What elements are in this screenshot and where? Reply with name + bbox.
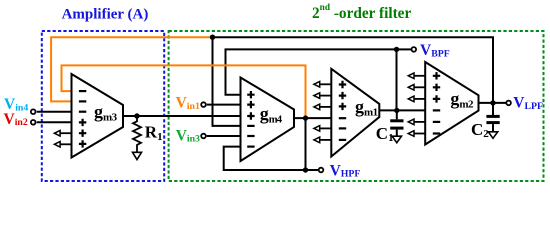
op-amp gm1 row6 arrow stub	[314, 137, 332, 143]
op-amp gm3 row6 arrow stub	[54, 142, 72, 148]
wire: Vin3 input to gm4 row5	[207, 135, 242, 137]
box: 2nd-order filter block (green dashed)	[169, 31, 544, 181]
op-amp gm3 row5 arrow stub	[54, 130, 72, 136]
wire: orange feedback from HPF node to gm3 input row1	[62, 65, 306, 117]
terminal VHPF	[319, 168, 324, 173]
svg-text:VHPF: VHPF	[330, 162, 361, 179]
op-amp gm3 body	[72, 74, 124, 158]
svg-text:Vin3: Vin3	[176, 127, 200, 144]
ground for R1	[133, 152, 142, 159]
op-amp gm3 input polarity marks	[79, 91, 86, 148]
op-amp gm1 row5 arrow stub	[314, 126, 332, 132]
wire: gm4 output to gm1 row4	[293, 117, 332, 119]
wire: BPF vertical from top line down to gm1 output	[396, 49, 398, 110]
op-amp gm1 body	[331, 69, 379, 157]
op-amp gm2 row3 arrow stub	[408, 96, 426, 102]
op-amp gm4 input polarity marks	[247, 91, 254, 147]
op-amp gm2 input polarity marks	[433, 72, 440, 133]
capacitor C1	[390, 110, 403, 136]
wire: gm2 output to VLPF terminal	[478, 102, 507, 104]
op-amp gm2 row2 arrow stub	[408, 85, 426, 91]
wire: gm1 output to gm2 row4	[378, 109, 426, 111]
terminal VBPF	[412, 47, 417, 52]
op-amp gm1 row1 arrow stub	[314, 82, 332, 88]
wire: Vin2 input to gm3 row4	[37, 121, 73, 123]
svg-text:VLPF: VLPF	[513, 95, 543, 112]
node: HPF output junction	[303, 115, 308, 120]
op-amp gm2 row1 arrow stub	[408, 73, 426, 79]
op-amp gm2 body	[425, 62, 478, 145]
svg-text:VBPF: VBPF	[420, 42, 450, 59]
op-amp gm1 row2 arrow stub	[314, 93, 332, 99]
svg-text:2nd -order filter: 2nd -order filter	[312, 3, 411, 22]
wire: orange feedback from LPF line to gm3 input row2	[51, 37, 212, 101]
wire: HPF node vertical down	[305, 118, 307, 170]
op-amp gm1 input polarity marks	[339, 81, 346, 140]
op-amp gm4 body	[241, 78, 295, 162]
node: LPF feedback junction	[210, 35, 215, 40]
wire: top LPF feedback line to C2 node	[213, 37, 494, 103]
op-amp gm1 row3 arrow stub	[314, 104, 332, 110]
box: Amplifier block (blue dashed)	[42, 31, 164, 181]
svg-text:Vin1: Vin1	[176, 95, 200, 112]
wire: gm3 output to gm4 row3	[122, 115, 242, 117]
terminal Vin2	[31, 120, 36, 125]
wire: HPF node stub to VHPF terminal	[306, 169, 319, 171]
svg-text:Amplifier (A): Amplifier (A)	[62, 6, 149, 22]
ground for C1	[392, 136, 401, 143]
node: BPF output junction	[394, 108, 399, 113]
wire: gm4 unity feedback loop to row6	[224, 147, 306, 170]
op-amp gm2 row6 arrow stub	[408, 131, 426, 137]
op-amp gm2 row5 arrow stub	[408, 119, 426, 125]
terminal Vin4	[31, 109, 36, 114]
node: LPF output junction	[490, 100, 495, 105]
capacitor C2	[486, 103, 499, 132]
wire: Vin4 input to gm3 row3	[37, 111, 73, 113]
svg-text:R1: R1	[145, 123, 163, 144]
ground for C2	[488, 132, 497, 139]
terminal VLPF	[506, 101, 511, 106]
svg-text:Vin2: Vin2	[4, 111, 28, 128]
resistor R1	[133, 116, 141, 152]
terminal Vin3	[201, 134, 206, 139]
wire: Vin1 input to gm4 row2	[207, 104, 242, 106]
node: BPF top junction	[394, 47, 399, 52]
terminal Vin1	[201, 102, 206, 107]
node: HPF bottom junction	[303, 167, 308, 172]
wire: BPF feedback from gm1 output up to gm4 row1	[226, 49, 397, 94]
wire: BPF node stub to VBPF terminal	[397, 48, 412, 50]
node: gm3 output junction	[134, 113, 139, 118]
wire: LPF feedback tap down to gm4 row4	[213, 37, 242, 126]
